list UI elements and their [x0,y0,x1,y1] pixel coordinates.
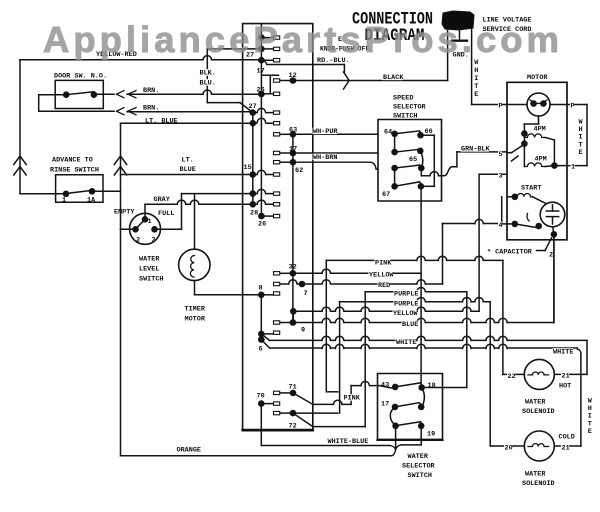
svg-text:RED: RED [378,282,390,290]
svg-text:19: 19 [427,431,435,439]
svg-text:PURPLE: PURPLE [394,291,418,299]
svg-text:GRN-BLK: GRN-BLK [461,146,490,154]
svg-text:1: 1 [62,197,66,205]
svg-text:FULL: FULL [158,210,174,218]
svg-text:SPEED: SPEED [393,95,413,103]
svg-text:WATER: WATER [139,256,160,264]
svg-text:20: 20 [505,445,513,453]
svg-text:SWITCH: SWITCH [393,113,417,121]
svg-text:BRN.: BRN. [143,105,159,113]
svg-text:YELLOW: YELLOW [369,272,394,280]
svg-text:WATER: WATER [525,399,546,407]
svg-text:P: P [499,103,503,111]
svg-text:P: P [571,103,575,111]
svg-text:17: 17 [257,68,265,76]
svg-text:GRAY: GRAY [154,196,171,204]
svg-text:START: START [521,185,541,193]
svg-text:1: 1 [148,218,152,226]
svg-text:63: 63 [289,127,297,135]
svg-text:RINSE SWITCH: RINSE SWITCH [50,167,99,175]
svg-text:28: 28 [250,210,258,218]
svg-text:MOTOR: MOTOR [527,74,548,82]
svg-text:HOT: HOT [559,383,571,391]
svg-text:SELECTOR: SELECTOR [393,104,427,112]
svg-text:22: 22 [508,373,516,381]
svg-text:4: 4 [499,222,503,230]
svg-text:27: 27 [249,103,257,111]
svg-text:WH-PUR: WH-PUR [313,128,338,136]
svg-text:43: 43 [381,382,389,390]
svg-text:2: 2 [549,252,553,260]
svg-text:1A: 1A [87,197,96,205]
svg-text:YELLOW: YELLOW [393,310,418,318]
svg-text:3: 3 [499,173,503,181]
svg-text:LEVEL: LEVEL [139,266,159,274]
svg-text:17: 17 [381,401,389,409]
svg-text:WATER: WATER [408,453,429,461]
svg-text:BLUE: BLUE [180,166,196,174]
svg-text:COLD: COLD [559,434,575,442]
svg-text:ADVANCE TO: ADVANCE TO [52,157,93,165]
svg-text:70: 70 [257,393,265,401]
svg-text:LT.: LT. [182,157,194,165]
svg-text:E: E [588,428,592,436]
svg-text:PINK: PINK [375,260,392,268]
svg-text:32: 32 [289,264,297,272]
svg-text:I: I [474,75,478,83]
svg-text:26: 26 [258,221,266,229]
svg-text:SELECTOR: SELECTOR [402,463,436,471]
svg-text:BLUE: BLUE [402,321,418,329]
svg-text:17: 17 [289,146,297,154]
svg-text:3: 3 [152,237,156,245]
svg-text:SOLENOID: SOLENOID [522,408,555,416]
svg-text:21: 21 [562,373,570,381]
svg-text:71: 71 [289,384,297,392]
svg-text:15: 15 [244,164,252,172]
svg-text:BRN.: BRN. [143,87,159,95]
svg-text:SWITCH: SWITCH [408,472,432,480]
svg-text:WH-BRN: WH-BRN [313,154,337,162]
svg-text:PINK: PINK [344,395,361,403]
svg-text:4PM: 4PM [535,156,547,164]
svg-text:AppliancePartsPros.com: AppliancePartsPros.com [43,19,559,60]
svg-text:MOTOR: MOTOR [185,316,206,324]
svg-text:TIMER: TIMER [185,306,206,314]
svg-text:SOLENOID: SOLENOID [522,480,555,488]
svg-text:SWITCH: SWITCH [139,276,163,284]
svg-text:BLK.: BLK. [200,70,216,78]
svg-text:18: 18 [428,382,436,390]
svg-text:8: 8 [259,285,263,293]
svg-text:2: 2 [136,237,140,245]
svg-text:64: 64 [384,129,392,137]
svg-text:6: 6 [259,346,263,354]
svg-text:BLACK: BLACK [383,74,404,82]
svg-text:9: 9 [301,327,305,335]
svg-text:WATER: WATER [525,471,546,479]
svg-text:T: T [474,83,478,91]
svg-text:LT. BLUE: LT. BLUE [145,117,178,125]
svg-text:E: E [474,91,478,99]
svg-text:WHITE-BLUE: WHITE-BLUE [328,438,369,446]
svg-text:ORANGE: ORANGE [177,447,201,455]
svg-text:62: 62 [295,167,303,175]
svg-text:H: H [474,67,478,75]
svg-text:PURPLE: PURPLE [394,301,418,309]
svg-text:EMPTY: EMPTY [114,209,135,217]
svg-text:12: 12 [289,72,297,80]
svg-text:1: 1 [571,164,575,172]
svg-text:21: 21 [562,445,570,453]
svg-text:WHITE: WHITE [396,339,416,347]
svg-text:* CAPACITOR: * CAPACITOR [487,249,533,257]
svg-text:7: 7 [304,290,308,298]
svg-text:67: 67 [382,191,390,199]
svg-text:5: 5 [499,151,503,159]
svg-text:DOOR SW. N.O.: DOOR SW. N.O. [54,73,107,81]
svg-text:WHITE: WHITE [553,349,573,357]
svg-text:BLU.: BLU. [200,80,216,88]
svg-text:26: 26 [257,87,265,95]
svg-text:66: 66 [425,128,433,136]
svg-text:72: 72 [289,423,297,431]
svg-text:65: 65 [409,156,417,164]
svg-text:E: E [579,149,583,157]
svg-text:4PM: 4PM [534,126,546,134]
